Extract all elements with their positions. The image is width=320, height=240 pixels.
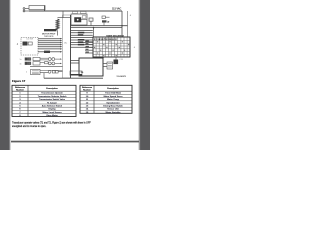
svg-text:4: 4 bbox=[26, 72, 27, 74]
svg-text:Number: Number bbox=[83, 88, 91, 91]
motor M1 bbox=[79, 58, 103, 76]
wire fuse-down bbox=[57, 30, 59, 35]
relay K2 bbox=[103, 57, 123, 69]
table right bbox=[80, 85, 132, 114]
inductor L2 bbox=[56, 19, 59, 30]
wire grid-to-M1 bbox=[103, 57, 105, 58]
contact marks inside J1 bbox=[94, 41, 129, 56]
footer rule bbox=[11, 141, 139, 143]
wire drop B bbox=[127, 11, 129, 37]
connector J2 row3 bbox=[26, 69, 63, 74]
svg-text:Number: Number bbox=[16, 88, 24, 91]
pin labels J1 bbox=[86, 40, 89, 52]
terminal plug P1 bbox=[23, 8, 29, 12]
node J-A bbox=[121, 25, 123, 27]
connector J1 grid bbox=[11, 37, 139, 142]
capacitor C1 bbox=[89, 18, 93, 26]
svg-text:Figure 17: Figure 17 bbox=[12, 79, 26, 83]
svg-text:Timer Dial Mask: Timer Dial Mask bbox=[105, 92, 122, 95]
wire L1 top bbox=[29, 10, 122, 12]
svg-text:% Jumper: % Jumper bbox=[47, 101, 57, 104]
label T2 bbox=[81, 12, 87, 14]
wire bottom bus bbox=[44, 77, 103, 79]
svg-text:LID SW: LID SW bbox=[27, 39, 34, 41]
svg-text:4: 4 bbox=[130, 15, 132, 17]
svg-text:Water Level Sensor: Water Level Sensor bbox=[42, 111, 61, 114]
wire bus drop bbox=[43, 73, 45, 78]
connector J1 left pins bbox=[85, 42, 93, 53]
wire to M1 bbox=[71, 61, 80, 64]
table left bbox=[12, 85, 76, 117]
svg-text:Transmission Switch Valve: Transmission Switch Valve bbox=[39, 98, 66, 101]
svg-text:4: 4 bbox=[17, 43, 19, 46]
svg-text:Transducer operate valves (T1: Transducer operate valves (T1 and T2, Fi… bbox=[12, 121, 91, 124]
switch S2 row1 bbox=[25, 57, 60, 60]
wire drop A bbox=[121, 11, 123, 37]
svg-text:UC: UC bbox=[64, 43, 68, 45]
svg-text:TWO SPD: TWO SPD bbox=[44, 36, 54, 38]
svg-text:Description: Description bbox=[107, 87, 119, 90]
wire grid feed bbox=[93, 28, 95, 37]
diode D1 bbox=[102, 20, 110, 25]
wire long row bbox=[30, 65, 63, 67]
svg-text:Motor Speed Servo: Motor Speed Servo bbox=[104, 95, 124, 98]
svg-text:115 VAC: 115 VAC bbox=[112, 7, 121, 10]
switch S1 bbox=[102, 16, 110, 18]
crystal oscillator Y1 bbox=[71, 14, 87, 25]
svg-text:1a: 1a bbox=[20, 59, 22, 61]
svg-text:CW: CW bbox=[120, 59, 123, 61]
pin arrows A bbox=[60, 38, 62, 50]
wire bundle A bbox=[38, 39, 61, 49]
svg-text:Water Pump: Water Pump bbox=[107, 98, 120, 101]
svg-text:Driving Base Switch: Driving Base Switch bbox=[103, 105, 123, 108]
IC U1 bbox=[63, 15, 71, 78]
svg-text:Display: Display bbox=[48, 109, 56, 111]
wire IC-top bbox=[62, 11, 64, 18]
svg-text:1b: 1b bbox=[20, 63, 22, 65]
capacitor C2 bbox=[70, 71, 82, 75]
svg-text:Sensor Unit: Sensor Unit bbox=[107, 108, 119, 111]
fuse F1 bbox=[44, 29, 57, 31]
switch S3 row2 bbox=[25, 62, 60, 65]
svg-text:Transmission Operate: Transmission Operate bbox=[41, 92, 63, 95]
wire coil-top bbox=[58, 17, 72, 19]
svg-text:Water Sprinkler: Water Sprinkler bbox=[106, 111, 121, 114]
wire bundle B bbox=[71, 30, 93, 47]
resistor R2 bbox=[38, 51, 62, 53]
relay K1 dashed enclosure bbox=[17, 38, 38, 56]
svg-text:Transmission Selector Switch: Transmission Selector Switch bbox=[38, 95, 67, 98]
svg-text:Description: Description bbox=[46, 87, 58, 90]
line filter FL1 bbox=[29, 6, 45, 10]
svg-text:Auto Selector Switch: Auto Selector Switch bbox=[42, 105, 63, 108]
label T1 bbox=[73, 12, 78, 14]
svg-text:4: 4 bbox=[134, 47, 136, 49]
wire bus N1 bbox=[71, 25, 128, 27]
svg-text:21-04079: 21-04079 bbox=[117, 76, 127, 78]
svg-text:1 2 3 4 5 6 7 8 9 10 11 12: 1 2 3 4 5 6 7 8 9 10 11 12 bbox=[94, 39, 118, 41]
wire bus N2 bbox=[71, 27, 123, 29]
svg-text:Speedometer: Speedometer bbox=[106, 101, 119, 104]
node J-B bbox=[93, 27, 95, 29]
svg-text:energized and in reverse to op: energized and in reverse to open. bbox=[12, 125, 47, 128]
svg-text:Drive Motor: Drive Motor bbox=[46, 114, 58, 117]
wire labels B bbox=[78, 32, 85, 46]
